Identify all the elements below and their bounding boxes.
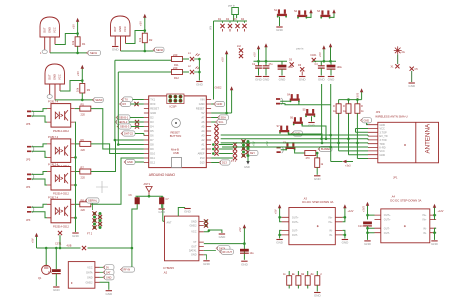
supply arrow S3 (332, 9, 335, 18)
svg-text:TX1: TX1 (150, 98, 155, 102)
svg-text:RESET: RESET (196, 107, 205, 111)
capacitor C3 100u electrolytic (278, 65, 294, 76)
svg-text:OUT+: OUT+ (292, 216, 299, 219)
plug SW5 (277, 147, 284, 154)
wire status LED row2 (118, 71, 171, 73)
svg-text:D10: D10 (150, 152, 155, 156)
junction (144, 29, 147, 32)
ground SW2 (308, 123, 316, 128)
svg-text:PS2514-G512: PS2514-G512 (53, 193, 69, 196)
svg-text:220: 220 (173, 53, 178, 57)
ground opto emitters (72, 233, 80, 238)
wire pullups to bus (339, 113, 368, 158)
ground C4 (318, 77, 326, 82)
wire serial rows (211, 145, 233, 159)
svg-text:220: 220 (173, 66, 178, 70)
net flag A7 (211, 115, 228, 120)
crystal CST1 (55, 231, 62, 248)
svg-text:D5: D5 (150, 129, 154, 133)
ground R10 (314, 176, 322, 181)
svg-text:FT 2: FT 2 (87, 233, 93, 236)
svg-text:3.TOP: 3.TOP (380, 131, 388, 134)
resistor R8 220 (75, 198, 91, 212)
svg-text:OUT+: OUT+ (292, 221, 299, 224)
svg-text:ANT: ANT (167, 222, 172, 225)
resistor R1 10k (71, 34, 86, 53)
diode pair DX (237, 45, 243, 58)
LED LED1 (188, 52, 200, 61)
resistor RN2 (292, 271, 303, 289)
svg-text:+5V: +5V (318, 52, 322, 57)
svg-text:R3: R3 (87, 88, 91, 92)
optocoupler OK1 (47, 100, 75, 133)
ground C7 (158, 209, 166, 214)
diode D5 (289, 59, 294, 67)
svg-text:OUT-: OUT- (384, 227, 390, 230)
svg-text:PC817 4: PC817 4 (48, 100, 59, 104)
wire bank1 rail (254, 52, 288, 66)
net flag DATA1 (219, 249, 233, 254)
svg-text:GND: GND (150, 111, 156, 115)
plug JP2 (26, 146, 34, 162)
ground antenna2 (408, 83, 416, 88)
resistor R14 (343, 104, 351, 114)
svg-text:BUZZER: BUZZER (321, 148, 331, 151)
resistor RN1 (283, 271, 294, 289)
svg-text:C1R1: C1R1 (310, 54, 317, 57)
wire 3v3 column (331, 147, 343, 162)
ground REC2 (112, 47, 120, 52)
ground U3 (105, 291, 113, 296)
diode D1 (218, 18, 225, 32)
svg-text:OUT-: OUT- (292, 234, 298, 237)
svg-text:+5V: +5V (72, 24, 76, 29)
svg-text:GND: GND (87, 276, 93, 279)
header ICSP (167, 94, 184, 109)
svg-text:+5V: +5V (221, 57, 225, 62)
svg-text:D3: D3 (150, 120, 154, 124)
svg-text:OUT-: OUT- (384, 232, 390, 235)
svg-text:DHT-22: DHT-22 (124, 132, 133, 136)
junction (81, 79, 84, 82)
svg-text:3.TXD: 3.TXD (380, 139, 387, 142)
crystal X1 (391, 64, 400, 68)
svg-text:A6: A6 (201, 120, 205, 124)
svg-text:IN-: IN- (423, 227, 427, 230)
ground RN4 (314, 293, 322, 298)
svg-text:SERIAL: SERIAL (88, 199, 98, 203)
resistor R5 220 (75, 103, 91, 117)
svg-text:+5V: +5V (253, 52, 257, 57)
svg-text:GND: GND (106, 277, 112, 280)
capacitor C7 (159, 196, 169, 208)
wire status LED row1 (115, 59, 172, 61)
resistor RN3 (302, 271, 313, 289)
plug JP3 (26, 173, 34, 189)
svg-text:A2: A2 (201, 138, 205, 142)
ground U2 top (184, 209, 192, 214)
wire SW4 (288, 133, 322, 143)
svg-text:ICSP: ICSP (170, 105, 177, 109)
wire antenna1 (397, 54, 399, 64)
svg-text:VCC: VCC (191, 231, 196, 234)
svg-text:PC817 4: PC817 4 (48, 163, 59, 167)
svg-text:GND2: GND2 (215, 87, 223, 90)
net flag U3 gnd (100, 275, 115, 280)
module U3 sensor (68, 262, 95, 289)
capacitor C9 electrolytic (48, 248, 61, 286)
svg-text:+5V: +5V (274, 209, 277, 214)
wire FT2 to ground (244, 157, 250, 169)
svg-text:DAT: DAT (106, 272, 111, 275)
svg-text:R: R (343, 105, 345, 108)
wire REC2 out (121, 31, 154, 52)
svg-text:PS2514-G512: PS2514-G512 (53, 226, 69, 229)
svg-text:+12V: +12V (348, 210, 354, 213)
net flag GND right (211, 101, 224, 106)
svg-text:10u: 10u (48, 271, 53, 274)
supply +5V REC3 (76, 65, 84, 81)
wire pwr-in rail (214, 20, 248, 22)
wire OK3 out (91, 140, 144, 172)
resistor R13 (333, 104, 341, 114)
svg-text:DATA1: DATA1 (189, 250, 197, 253)
svg-text:R8: R8 (81, 198, 85, 202)
capacitor C6 (129, 194, 140, 248)
svg-text:+5V: +5V (253, 141, 256, 146)
LED LED2 (188, 65, 200, 74)
ground C9 (53, 287, 61, 292)
svg-text:2x2: 2x2 (237, 45, 242, 48)
pads U2 aux (204, 219, 208, 227)
net flag TX (121, 97, 143, 102)
svg-text:GND: GND (191, 220, 197, 223)
pins U3 (95, 267, 100, 282)
svg-text:JP3: JP3 (26, 219, 31, 222)
switch SW4 (277, 125, 290, 134)
svg-text:R5: R5 (81, 103, 85, 107)
supply +5V REC1 (72, 18, 80, 34)
svg-text:GND: GND (217, 102, 223, 106)
svg-text:10u: 10u (250, 252, 255, 255)
antenna spark top right (394, 46, 405, 54)
svg-text:GND2: GND2 (86, 281, 94, 284)
resistor R5 220 (172, 66, 190, 80)
switch SW5 (283, 142, 296, 151)
net flag IN2 (115, 119, 144, 124)
svg-text:SEN1: SEN1 (90, 51, 98, 55)
svg-text:IN-: IN- (329, 230, 333, 233)
net flag A6 (211, 119, 226, 124)
svg-text:ARDUINO NANO: ARDUINO NANO (149, 173, 176, 177)
resistor R10 (315, 153, 324, 175)
svg-text:IN+: IN+ (329, 216, 334, 219)
wire S2 to supply (306, 16, 311, 18)
resistor RN4 (311, 271, 322, 292)
net flag D13 (211, 160, 230, 165)
optocoupler OK3 (47, 163, 75, 196)
svg-text:A5: A5 (201, 125, 205, 129)
svg-text:DATA: DATA (86, 271, 93, 274)
wire LED cathodes to ground (198, 59, 200, 81)
wire REC1 out (50, 34, 87, 53)
svg-text:10k: 10k (138, 37, 142, 42)
resistor R6 220 (75, 138, 91, 152)
svg-text:IN+: IN+ (423, 214, 428, 217)
svg-text:DC-DC STEP-DOWN 3A: DC-DC STEP-DOWN 3A (390, 198, 421, 202)
supply PS1 in (343, 204, 354, 222)
svg-text:WIRELESS ANTN SMA-U: WIRELESS ANTN SMA-U (375, 115, 407, 119)
supply +5V REC2 (139, 14, 147, 31)
optocoupler OK4 (47, 195, 75, 228)
svg-text:220: 220 (81, 113, 86, 117)
svg-text:RF-OUT: RF-OUT (223, 251, 233, 254)
svg-text:+5V: +5V (139, 21, 143, 26)
ground PS2 left (364, 241, 372, 246)
net flag OUT (204, 246, 230, 251)
ground C1 (255, 77, 263, 82)
svg-text:JP4: JP4 (26, 186, 31, 189)
svg-text:A1: A1 (201, 143, 205, 147)
svg-text:D12: D12 (150, 161, 155, 165)
svg-text:VCC: VCC (380, 128, 385, 131)
net flag RX (119, 101, 143, 106)
svg-text:+5V: +5V (32, 238, 35, 243)
svg-text:R1: R1 (82, 42, 86, 46)
svg-text:GND: GND (364, 120, 370, 123)
svg-text:OUT: OUT (191, 245, 197, 248)
pins U1 left (144, 98, 159, 165)
svg-text:D13: D13 (200, 161, 205, 165)
ground PS1 right (342, 240, 350, 245)
svg-text:A0: A0 (201, 147, 205, 151)
pins PS1 left (282, 217, 289, 235)
svg-text:USB: USB (173, 151, 179, 155)
resistor R4 220 (172, 53, 190, 67)
switch S2 (294, 10, 307, 19)
wire antenna rail (136, 196, 165, 221)
svg-text:+5V: +5V (265, 141, 269, 146)
pins U1 right (196, 98, 211, 165)
svg-text:D2: D2 (150, 116, 154, 120)
switch SW3 (290, 117, 303, 126)
pins PS1 right (335, 217, 342, 235)
plug JP1 (26, 110, 34, 126)
supply +5V U2 (239, 224, 246, 260)
svg-text:ANTENNA: ANTENNA (425, 123, 432, 153)
svg-text:10k: 10k (71, 40, 75, 45)
capacitor C8 electrolytic (240, 249, 254, 255)
net flag SW5 left (247, 150, 258, 155)
module U1 ARDUINO NANO (149, 96, 207, 177)
net VIN vertical (210, 21, 214, 100)
svg-text:PS2514-G512: PS2514-G512 (53, 130, 69, 133)
ground S1 (276, 27, 284, 32)
svg-text:GND: GND (244, 165, 250, 169)
svg-text:A3: A3 (201, 134, 205, 138)
wire OK1 out (91, 109, 144, 149)
supply arrow S2 (309, 9, 312, 18)
wire PS2 in- to ground (435, 228, 437, 240)
header FT1 pads (87, 211, 102, 235)
net flag RF bottom left (120, 248, 134, 272)
svg-text:D11: D11 (150, 156, 155, 160)
svg-text:5V: 5V (106, 267, 109, 270)
crystal X2 (410, 67, 419, 71)
switch SW1 (287, 94, 300, 103)
svg-text:A7: A7 (201, 116, 205, 120)
net flag DISPLAY (318, 146, 332, 151)
junction (81, 99, 84, 102)
svg-text:220: 220 (81, 208, 86, 212)
svg-text:SEN3: SEN3 (95, 98, 103, 102)
svg-text:100u: 100u (288, 66, 294, 69)
wire SW1 (280, 84, 331, 139)
svg-text:47u: 47u (269, 63, 274, 66)
supply +5V near arduino a (211, 50, 232, 113)
svg-text:VT: VT (193, 241, 197, 244)
wire S1 to ground (279, 17, 281, 26)
capacitor C4 (315, 63, 325, 76)
wire pullup rail (339, 100, 362, 104)
svg-text:2G: 2G (402, 51, 405, 54)
supply PS2 right arrow (433, 204, 444, 220)
wire OK4 out (91, 158, 144, 204)
antenna ANT1 (144, 182, 153, 196)
svg-text:GND: GND (380, 154, 386, 157)
ground C8 (241, 261, 249, 266)
module U2 CY8M15 (163, 208, 199, 275)
capacitor C5 100u electrolytic (327, 65, 343, 76)
svg-text:PC817 4: PC817 4 (48, 135, 59, 139)
capacitor C1 47u (252, 63, 262, 76)
wire sensor bus verticals (115, 60, 144, 144)
microphone MIC1 (38, 248, 51, 280)
supply +5V near arduino b (230, 86, 233, 113)
supply PS2 left arrow (362, 202, 374, 220)
svg-text:GND: GND (199, 102, 205, 106)
diode D6 (298, 64, 304, 76)
switch S3 (317, 10, 331, 19)
svg-text:JP5: JP5 (26, 158, 31, 161)
net flag LED3 (92, 97, 103, 102)
module PS2 DC-DC (381, 195, 430, 243)
svg-text:R7: R7 (81, 166, 85, 170)
net flag LED1 (86, 50, 100, 55)
svg-text:TRD: TRD (380, 143, 385, 146)
svg-text:JP2: JP2 (376, 110, 381, 114)
svg-text:OUT+: OUT+ (384, 219, 391, 222)
svg-text:+5V: +5V (76, 71, 80, 76)
svg-text:D7: D7 (150, 138, 154, 142)
svg-text:4UB: 4UB (67, 245, 72, 248)
ground D6 (299, 77, 307, 82)
supply +5V bank1 b (264, 43, 267, 52)
svg-text:IN-: IN- (423, 232, 427, 235)
ground U2 bottom (203, 255, 211, 266)
svg-text:D8: D8 (150, 143, 154, 147)
junction (144, 50, 147, 53)
ground C3 (279, 77, 287, 82)
svg-text:GND: GND (380, 124, 386, 127)
svg-text:.A2: .A2 (163, 270, 168, 274)
wire bottom rail (37, 247, 132, 249)
wire S3 to supply (330, 16, 334, 18)
pins RFID (368, 124, 388, 159)
ground PS1 left (276, 240, 284, 245)
connector Mini-B USB (171, 148, 182, 168)
svg-text:GND: GND (191, 254, 197, 257)
svg-text:JP6: JP6 (26, 123, 31, 126)
svg-text:100u: 100u (337, 66, 343, 69)
svg-text:IN+: IN+ (423, 219, 428, 222)
svg-text:RESET: RESET (150, 107, 159, 111)
diode D3 (234, 18, 240, 32)
capacitor C10 electrolytic (358, 222, 375, 240)
net flag U3 data (100, 270, 115, 275)
svg-text:R: R (361, 105, 363, 108)
svg-text:KEY: KEY (250, 152, 255, 155)
net flag LED2 (153, 47, 164, 52)
svg-text:RF-IN: RF-IN (124, 269, 131, 272)
wire U2 out (204, 243, 245, 245)
svg-text:DC-DC STEP-DOWN 3A: DC-DC STEP-DOWN 3A (302, 200, 333, 204)
svg-text:10k: 10k (76, 87, 80, 92)
wire SW5 chain (281, 150, 305, 153)
svg-text:R2: R2 (149, 38, 153, 42)
connector pwr-in (228, 4, 238, 22)
wire RFID top rows (356, 129, 369, 133)
wire REC3 out (55, 81, 93, 100)
supply +5V bottom left (32, 233, 39, 248)
resistor R3 10k (76, 81, 91, 100)
svg-text:D9: D9 (150, 147, 154, 151)
net flag GND RFID (360, 118, 371, 125)
svg-text:RX: RX (123, 102, 127, 106)
diode column A5-A0 (214, 124, 218, 155)
diode D4 (241, 18, 247, 32)
net flag IN4 (121, 131, 144, 136)
net flag IN3 (117, 124, 144, 129)
svg-text:pwr in: pwr in (228, 4, 235, 8)
svg-text:220: 220 (81, 175, 86, 179)
svg-text:R12: R12 (174, 76, 179, 80)
origin cross (96, 181, 108, 193)
wire U2 vcc to ground (204, 230, 222, 233)
junction (76, 32, 79, 35)
svg-text:RX0: RX0 (150, 102, 156, 106)
supply +5V bank1 a (253, 45, 261, 57)
plug SW1 (276, 98, 283, 105)
svg-text:A4: A4 (201, 129, 205, 133)
svg-text:FT 2: FT 2 (231, 160, 237, 163)
wire JP3 to OK3 (32, 172, 48, 186)
button RESET (170, 119, 181, 138)
svg-text:GND2: GND2 (190, 224, 198, 227)
switch S1 (274, 9, 287, 18)
svg-text:+3V3: +3V3 (356, 92, 360, 99)
svg-text:D13: D13 (222, 161, 227, 165)
supply +3V3 pullups (356, 88, 364, 99)
svg-text:+5V: +5V (239, 227, 242, 232)
svg-text:EX_TD: EX_TD (380, 135, 388, 138)
svg-text:CST1: CST1 (55, 243, 62, 246)
svg-text:R: R (333, 105, 335, 108)
resistor R15 (355, 104, 364, 114)
wire SW3 (302, 125, 326, 139)
wire PS1 in- to ground (343, 230, 345, 238)
wire JP4 to OK4 (32, 204, 48, 218)
